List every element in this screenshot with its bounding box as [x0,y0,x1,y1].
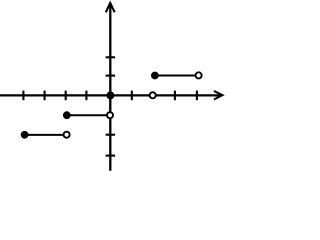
step segment [2,4) at y=+1 [155,75,199,77]
x-axis [0,94,221,96]
step segment [-2,0) at y=-1 [67,114,110,116]
y tick -2 [106,134,116,136]
y-axis arrowhead [106,3,115,12]
open endpoint circle at (0,-1) on y-axis [107,112,113,118]
closed endpoint dot at (-4,-2) [21,131,29,139]
closed endpoint dot at origin (0,0) [106,91,114,99]
x-axis arrowhead [214,91,223,100]
y-axis [109,4,111,171]
y tick +2 [106,56,116,58]
step segment [-4,-2) at y=-2 [25,134,67,136]
open endpoint circle at (-2,-2) [64,132,70,138]
x tick +1 [131,91,133,101]
x tick -1 [85,91,87,101]
x tick -3 [44,91,46,101]
x tick -4 [22,91,24,101]
open endpoint circle at (4,1) [196,72,202,78]
y tick -3 [106,155,116,157]
x tick -2 [65,91,67,101]
x tick +3 [174,91,176,101]
open endpoint circle at (2,0) on x-axis [150,92,156,98]
y tick +1 [106,75,116,77]
closed endpoint dot at (2,1) [151,72,159,80]
x tick +4 [196,91,198,101]
closed endpoint dot at (-2,-1) [63,111,71,119]
